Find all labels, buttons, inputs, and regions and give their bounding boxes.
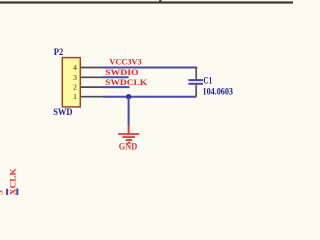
svg-text:4: 4 (73, 63, 77, 72)
svg-text:SWDCLK: SWDCLK (105, 77, 147, 87)
connector P2 body (62, 58, 80, 107)
wire stub (bottom left) (6, 189, 8, 195)
svg-text:104.0603: 104.0603 (203, 87, 234, 97)
svg-text:SWDIO: SWDIO (105, 67, 139, 77)
wire SWDIO (103, 76, 129, 78)
wire GND net (pin 1 to capacitor) (103, 96, 197, 98)
pin 1 (73, 92, 103, 101)
sheet border ruler tick (159, 0, 161, 3)
capacitor C1 (188, 68, 203, 96)
pin 3 (73, 73, 103, 82)
junction dot (126, 94, 131, 99)
svg-text:GND: GND (119, 142, 138, 152)
sheet border line (top) (0, 1, 293, 3)
power port GND (118, 125, 139, 152)
wire stub (bottom left 2) (16, 189, 18, 196)
svg-text:2: 2 (73, 83, 77, 92)
pin 2 (73, 83, 103, 92)
wire SWDCLK (103, 86, 130, 88)
svg-text:P2: P2 (54, 48, 64, 58)
svg-text:C1: C1 (203, 76, 212, 86)
wire VCC3V3 (103, 68, 197, 70)
svg-text:1: 1 (73, 92, 77, 101)
svg-text:S: S (0, 190, 5, 195)
svg-text:VCC3V3: VCC3V3 (109, 56, 141, 66)
svg-text:3: 3 (73, 73, 77, 82)
svg-text:XCLK: XCLK (8, 168, 18, 195)
wire junction to ground (128, 97, 130, 125)
sheet background (0, 0, 293, 195)
pin 4 (73, 63, 103, 72)
svg-text:SWD: SWD (53, 108, 72, 118)
